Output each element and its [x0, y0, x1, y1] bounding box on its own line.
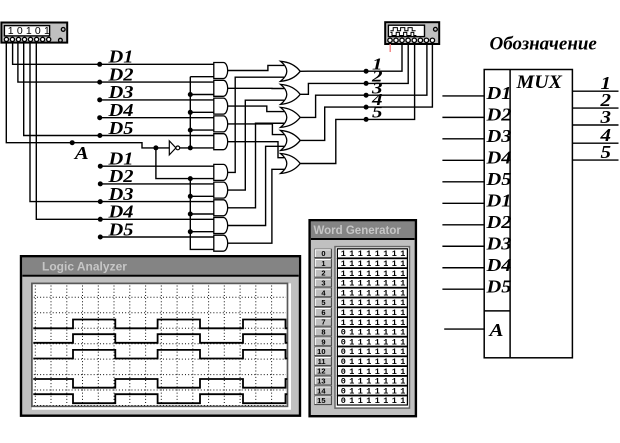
node D4 top junction: [97, 115, 102, 120]
svg-text:D4: D4: [485, 255, 511, 275]
LA trace channel 5: [33, 394, 287, 403]
svg-text:01111111: 01111111: [341, 357, 409, 367]
wire AND10 output to OR5 lower input: [228, 169, 284, 243]
node NOT-A tap 4: [188, 128, 193, 133]
wire AND2 output to OR2 upper input: [228, 87, 284, 89]
wire MUX input stub D2 second group: [442, 224, 484, 226]
svg-text:11111111: 11111111: [341, 288, 409, 298]
wire NOT-A stub to AND3 select: [190, 111, 214, 113]
wire net D3 lower (WG pin5 to AND8 input): [30, 44, 214, 202]
svg-text:D4: D4: [485, 148, 511, 168]
WG row 9 value 01111111: [337, 337, 408, 347]
LA trace channel 1: [33, 320, 287, 329]
node 5: [364, 117, 369, 122]
WG row 8 value 01111111: [337, 327, 408, 337]
svg-text:1: 1: [321, 259, 325, 268]
svg-text:D1: D1: [485, 83, 511, 103]
node D2 top junction: [97, 80, 102, 85]
svg-text:A: A: [488, 320, 503, 340]
OR gate U13 (output 2): [281, 84, 301, 104]
wire MUX input stub D3 second group: [442, 245, 484, 247]
wire MUX input stub D4: [442, 159, 484, 161]
wire NOT-A stub to AND2 select: [190, 94, 214, 96]
OR gate U15 (output 4): [281, 130, 301, 150]
svg-text:Logic Analyzer: Logic Analyzer: [42, 260, 127, 274]
WG row 4 button: [315, 288, 332, 297]
wire OR4 output to node 4 and LA ch8: [300, 44, 432, 141]
svg-text:11111111: 11111111: [341, 298, 409, 308]
wire MUX input stub D2: [442, 116, 484, 118]
svg-text:01111111: 01111111: [341, 347, 409, 357]
node A: [70, 140, 75, 145]
svg-text:11111111: 11111111: [341, 308, 409, 318]
wire AND1 output to OR1 upper input: [228, 65, 284, 70]
svg-text:11111111: 11111111: [341, 249, 409, 259]
wire OR5 output to node 5 and LA ch5: [300, 44, 414, 164]
svg-text:Обозначение: Обозначение: [490, 34, 598, 55]
WG row 8 button: [315, 328, 332, 337]
WG row 11 button: [315, 357, 332, 366]
wire MUX input stub D5 second group: [442, 288, 484, 290]
svg-text:5: 5: [321, 298, 325, 307]
svg-text:12: 12: [317, 367, 325, 376]
node D3 lower junction: [98, 199, 103, 204]
MUX symbol block: [484, 70, 572, 358]
AND gate U7 (D1&A): [214, 164, 228, 180]
wire net D1 lower (to AND6 input): [100, 165, 214, 167]
svg-text:6: 6: [321, 308, 325, 317]
LA trace channel 2: [33, 334, 287, 343]
svg-text:5: 5: [601, 142, 612, 162]
WG row 15 value 01111111: [337, 396, 408, 406]
wire net D2 lower (to AND7 input): [100, 183, 214, 185]
svg-text:11111111: 11111111: [341, 269, 409, 279]
WG row 7 value 11111111: [337, 317, 408, 327]
wire MUX input stub D5: [442, 181, 484, 183]
wire net D3 top (to AND3 input): [100, 99, 214, 101]
wire MUX output stub 2: [572, 107, 618, 109]
svg-text:11: 11: [318, 357, 326, 366]
word generator instrument icon XWG: [1, 23, 67, 43]
svg-text:9: 9: [321, 337, 325, 346]
node 3: [364, 93, 369, 98]
wire AND6 output to OR1 lower input: [228, 77, 284, 172]
wire MUX output stub 1: [572, 90, 618, 92]
wire A stub to AND8 select: [190, 213, 214, 215]
wire AND3 output to OR3 upper input: [228, 106, 284, 111]
AND gate U4 (D3&notA): [214, 98, 228, 114]
wire AND7 output to OR2 lower input: [228, 100, 284, 190]
wire net A vertical to AND10 select: [190, 179, 214, 250]
svg-text:0: 0: [321, 249, 325, 258]
inverter U1 (NOT gate on select line A): [169, 141, 179, 155]
WG row 2 button: [315, 269, 332, 278]
svg-text:10: 10: [317, 347, 325, 356]
wire net D5 top (WG pin4 to AND5 input): [24, 44, 214, 136]
wire MUX output stub 5: [572, 159, 618, 161]
svg-text:D5: D5: [485, 169, 511, 189]
node D3 top junction: [97, 97, 102, 102]
Word Generator window: [310, 220, 416, 416]
AND gate U8 (D2&A): [214, 182, 228, 198]
node D4 lower junction: [98, 217, 103, 222]
node D1 top junction: [97, 62, 102, 67]
AND gate U5 (D4&notA): [214, 116, 228, 132]
node A tap 6: [188, 176, 193, 181]
wire MUX input stub D4 second group: [442, 267, 484, 269]
svg-text:8: 8: [321, 328, 325, 337]
WG row 4 value 11111111: [337, 288, 408, 298]
node 2: [364, 81, 369, 86]
svg-text:D2: D2: [485, 105, 511, 125]
svg-text:01111111: 01111111: [341, 337, 409, 347]
wire net A (WG pin1 to inverter input): [6, 44, 169, 148]
svg-text:D3: D3: [485, 233, 511, 253]
wire inverter output to AND5 select input: [180, 147, 214, 149]
WG row 3 button: [315, 279, 332, 288]
wire net D4 lower (WG pin6 to AND9 input): [36, 44, 214, 220]
wire OR1 output to node 1 and LA ch3: [300, 44, 402, 72]
AND gate U2 (D1&notA): [214, 63, 228, 79]
wire net D5 lower (to AND10 input): [100, 236, 214, 238]
OR gate U12 (output 1): [281, 61, 301, 81]
WG row 7 button: [315, 318, 332, 327]
WG row 13 value 01111111: [337, 376, 408, 386]
WG row 2 value 11111111: [337, 268, 408, 278]
WG row 1 button: [315, 259, 332, 268]
WG row 5 value 11111111: [337, 298, 408, 308]
wire A stub to AND9 select: [190, 231, 214, 233]
AND gate U6 (D5&notA): [214, 134, 228, 150]
svg-text:01111111: 01111111: [341, 396, 409, 406]
wire AND5 output to OR5 upper input: [228, 142, 284, 158]
WG row 1 value 11111111: [337, 259, 408, 269]
svg-text:D5: D5: [485, 276, 511, 296]
node D1 lower junction: [98, 164, 103, 169]
LA plot dotted grid: [35, 286, 271, 405]
Logic Analyzer window: [21, 256, 300, 416]
svg-text:3: 3: [599, 107, 611, 127]
LA trace channel 3: [33, 350, 287, 359]
node NOT-A tap 3: [188, 110, 193, 115]
WG row 14 value 01111111: [337, 386, 408, 396]
node D5 lower junction: [98, 235, 103, 240]
wire net D1 top (WG pin2 to AND1 input): [13, 44, 214, 65]
svg-text:3: 3: [321, 279, 325, 288]
svg-text:01111111: 01111111: [341, 367, 409, 377]
svg-text:11111111: 11111111: [341, 279, 409, 289]
WG row 12 value 01111111: [337, 366, 408, 376]
wire AND8 output to OR3 lower input: [228, 123, 284, 208]
svg-text:2: 2: [321, 269, 325, 278]
svg-text:10101: 10101: [8, 25, 53, 37]
WG row 9 button: [315, 337, 332, 346]
wire MUX input stub D1 second group: [442, 202, 484, 204]
WG row 12 button: [315, 367, 332, 376]
wire red stub LA channel1: [389, 44, 391, 52]
logic analyzer instrument icon XLA: [385, 22, 439, 44]
AND gate U3 (D2&notA): [214, 80, 228, 96]
wire AND4 output to OR4 upper input: [228, 124, 284, 135]
svg-text:11111111: 11111111: [341, 259, 409, 269]
wire NOT-A stub to AND4 select: [190, 129, 214, 131]
WG row 6 button: [315, 308, 332, 317]
node A tap 7: [188, 194, 193, 199]
svg-text:MUX: MUX: [515, 73, 562, 93]
AND gate U11 (D5&A): [214, 235, 228, 251]
node 1: [364, 69, 369, 74]
svg-text:01111111: 01111111: [341, 377, 409, 387]
node 4: [364, 105, 369, 110]
svg-text:Word Generator: Word Generator: [314, 225, 402, 237]
node D2 lower junction: [98, 181, 103, 186]
wire MUX input stub A: [444, 328, 484, 330]
LA trace channel 4: [33, 379, 287, 388]
WG row 3 value 11111111: [337, 278, 408, 288]
WG row 13 button: [315, 377, 332, 386]
WG row 11 value 01111111: [337, 357, 408, 367]
WG row 14 button: [315, 386, 332, 395]
svg-text:D5: D5: [107, 118, 133, 138]
svg-text:01111111: 01111111: [341, 386, 409, 396]
WG row 10 value 01111111: [337, 347, 408, 357]
WG row 5 button: [315, 298, 332, 307]
node A tap 9: [188, 229, 193, 234]
svg-text:14: 14: [317, 386, 326, 395]
wire NOT-A stub to AND1 select: [190, 76, 214, 78]
svg-text:11111111: 11111111: [341, 318, 409, 328]
node NOT-A tap 2: [188, 92, 193, 97]
OR gate U14 (output 3): [281, 107, 301, 127]
wire MUX input stub D1: [442, 95, 484, 97]
wire AND9 output to OR4 lower input: [228, 146, 284, 225]
svg-text:D2: D2: [485, 212, 511, 232]
node A branch junction: [153, 145, 158, 150]
wire net D2 top (WG pin3 to AND2 input): [18, 44, 214, 83]
wire A stub to AND7 select: [190, 195, 214, 197]
WG row 10 button: [315, 347, 332, 356]
AND gate U10 (D4&A): [214, 218, 228, 234]
node A tap 8: [188, 212, 193, 217]
wire net NOT-A vertical: [189, 77, 191, 148]
svg-text:D5: D5: [107, 219, 133, 239]
wire net A to AND6 select: [156, 148, 214, 179]
svg-text:15: 15: [317, 396, 325, 405]
OR gate U16 (output 5): [281, 154, 301, 174]
WG row 6 value 11111111: [337, 308, 408, 318]
svg-text:5: 5: [372, 103, 383, 122]
svg-text:7: 7: [321, 318, 325, 327]
node D5 top junction: [97, 133, 102, 138]
WG row 15 button: [315, 396, 332, 405]
wire MUX output stub 4: [572, 142, 618, 144]
svg-text:D1: D1: [485, 191, 511, 211]
wire net D4 top (to AND4 input): [100, 117, 214, 119]
svg-text:13: 13: [317, 377, 325, 386]
svg-text:A: A: [74, 143, 89, 163]
wire MUX output stub 3: [572, 124, 618, 126]
WG row 0 button: [315, 249, 332, 258]
svg-text:01111111: 01111111: [341, 328, 409, 338]
node NOT-A junction: [188, 145, 193, 150]
AND gate U9 (D3&A): [214, 200, 228, 216]
wire MUX input stub D3: [442, 138, 484, 140]
wire OR3 output to node 3 and LA ch7: [300, 44, 427, 118]
svg-text:D3: D3: [485, 126, 511, 146]
WG row 0 value 11111111: [337, 249, 408, 259]
wire OR2 output to node 2 and LA ch4: [300, 44, 408, 95]
